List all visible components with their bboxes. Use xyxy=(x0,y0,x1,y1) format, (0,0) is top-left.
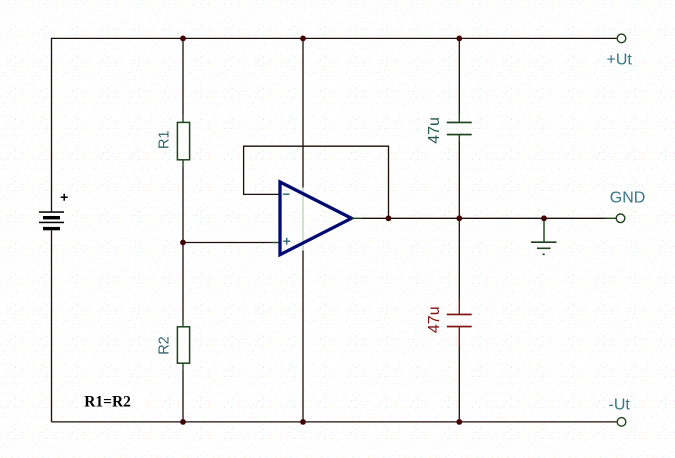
terminal -Ut xyxy=(617,418,626,427)
svg-text:GND: GND xyxy=(610,190,646,207)
wire R1 bottom lead to + tap xyxy=(182,160,184,243)
label GND xyxy=(610,190,646,207)
terminal GND xyxy=(616,214,625,223)
wire noninverting input (tap to op-amp +) xyxy=(183,242,279,244)
junction bottom rail at middle branch xyxy=(300,419,306,425)
junction output rail at ground xyxy=(541,215,547,221)
svg-text:47u: 47u xyxy=(426,117,443,144)
label -Ut xyxy=(609,397,631,414)
wire R1 top lead xyxy=(182,38,184,122)
label C1 value 47u xyxy=(426,117,443,144)
battery B1 xyxy=(39,194,68,231)
wire middle vertical upper (op-amp V+ supply) xyxy=(302,38,304,187)
capacitor C1 xyxy=(447,122,472,136)
junction bottom rail at capacitor branch xyxy=(456,419,462,425)
junction feedback at output xyxy=(386,215,392,221)
svg-text:+Ut: +Ut xyxy=(607,52,633,69)
resistor R2 xyxy=(177,327,189,363)
svg-text:47u: 47u xyxy=(426,306,443,333)
wire middle vertical lower (op-amp V- supply) xyxy=(302,251,304,423)
junction top rail at middle branch xyxy=(300,36,306,42)
wire feedback loop xyxy=(244,146,389,218)
label +Ut xyxy=(607,52,633,69)
label C2 value 47u xyxy=(426,306,443,333)
wire C2 bottom lead xyxy=(458,327,460,423)
junction output rail at capacitor branch xyxy=(456,215,462,221)
op-amp U1 xyxy=(280,182,352,255)
wire C1 bottom lead to output rail xyxy=(458,135,460,218)
label R2 xyxy=(157,336,173,355)
wire bottom rail xyxy=(52,421,617,423)
wire + tap to R2 top xyxy=(182,243,184,328)
wire output rail to C2 top lead xyxy=(458,218,460,313)
ground symbol xyxy=(531,218,557,255)
wire left vertical lower (battery bottom lead) xyxy=(51,230,53,422)
wire left vertical upper (battery top lead) xyxy=(51,38,53,212)
resistor R1 xyxy=(177,122,189,159)
wire op-amp output xyxy=(352,217,616,219)
junction top rail at capacitor branch xyxy=(456,36,462,42)
junction top rail at R1 branch xyxy=(180,36,186,42)
terminal +Ut xyxy=(617,34,626,43)
junction bottom rail at R2 branch xyxy=(180,419,186,425)
wire top rail xyxy=(52,37,617,39)
svg-text:-Ut: -Ut xyxy=(609,397,631,414)
svg-text:R1: R1 xyxy=(157,130,173,149)
svg-text:R2: R2 xyxy=(157,336,173,355)
wire op-amp internal power pin xyxy=(302,188,304,251)
capacitor C2 (highlighted red) xyxy=(447,314,472,328)
wire R2 bottom lead xyxy=(182,363,184,422)
wire capacitor branch upper (C1 top lead) xyxy=(458,38,460,121)
svg-text:R1=R2: R1=R2 xyxy=(84,393,131,410)
junction divider tap node xyxy=(180,240,186,246)
note R1=R2 xyxy=(78,392,146,411)
label R1 xyxy=(157,130,173,149)
